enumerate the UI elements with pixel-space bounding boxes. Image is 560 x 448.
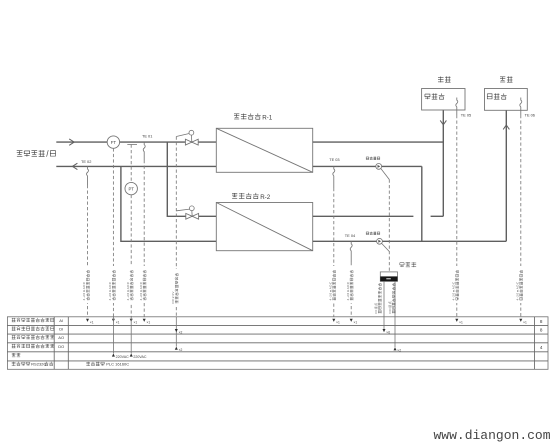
signal label valve <box>170 269 180 306</box>
wire: primary return pipe <box>56 165 216 167</box>
signal: TE02 dashed <box>87 185 89 317</box>
signal: FT dashed to table <box>112 148 114 316</box>
wire: collector downcomer <box>442 110 444 216</box>
signal: pumps dashed to distribution box <box>388 180 390 272</box>
svg-text:4-20mADC: 4-20mADC <box>451 281 455 301</box>
flow arrow up <box>503 125 509 129</box>
pressure tap <box>127 144 137 146</box>
valve line inside table <box>175 317 177 347</box>
svg-text:PLC 16160C: PLC 16160C <box>106 361 129 366</box>
svg-text:8: 8 <box>540 319 543 324</box>
signal: TE04 dashed <box>350 262 352 317</box>
svg-text:×2: ×2 <box>179 331 183 335</box>
row6 PLC suggestion <box>86 361 90 363</box>
collector 集水器 <box>422 89 465 111</box>
TE05 tap squiggle <box>456 98 458 116</box>
svg-text:TE 02: TE 02 <box>81 159 91 164</box>
svg-text:DO接点: DO接点 <box>387 301 392 314</box>
pump P2 <box>366 232 369 235</box>
label 热网供水/汽 <box>17 150 23 152</box>
svg-text:×2: ×2 <box>179 348 183 352</box>
svg-text:4-20mADC: 4-20mADC <box>139 281 143 301</box>
svg-text:DI接点: DI接点 <box>373 302 378 313</box>
svg-text:DI: DI <box>59 326 63 331</box>
label 供水 <box>500 76 505 78</box>
svg-text:FT: FT <box>111 140 117 145</box>
svg-text:×1: ×1 <box>147 320 151 324</box>
wire: return branch from R-2 <box>121 166 216 241</box>
I/O table frame <box>7 317 548 370</box>
svg-text:DC24V: DC24V <box>171 291 175 303</box>
signal: PT dashed to table <box>130 195 132 317</box>
flow arrow return <box>72 163 77 169</box>
signal label TE04 <box>344 266 354 303</box>
svg-text:4-20mADC: 4-20mADC <box>108 281 112 301</box>
signal: pump P1 diagonal <box>381 169 390 180</box>
svg-text:×1: ×1 <box>459 320 463 324</box>
signal label TE03 <box>327 266 337 303</box>
TE06 tap squiggle <box>520 98 522 116</box>
svg-text:×1: ×1 <box>354 320 358 324</box>
AI arrows row1 <box>86 319 89 322</box>
signal: TE05 dashed <box>456 115 458 317</box>
svg-text:TE 05: TE 05 <box>461 112 471 117</box>
svg-text:4: 4 <box>540 345 543 350</box>
heat exchanger R-1 <box>216 128 312 172</box>
label 热交换器R-2 <box>232 192 237 194</box>
control valve V2 <box>186 213 192 219</box>
signal label pump DO <box>392 283 395 313</box>
svg-text:220VAC: 220VAC <box>116 355 130 359</box>
wire: R-2 secondary outlet / bottom header <box>313 240 507 242</box>
pressure transmitter PT <box>125 182 137 194</box>
signal: pump P2 diagonal <box>382 243 390 251</box>
label 回水 <box>438 76 444 78</box>
signal: valve dashed to table <box>175 137 177 317</box>
label 热交换器R-1 <box>234 113 239 115</box>
signal: tap to PT <box>130 145 132 183</box>
power lines in table <box>112 317 114 354</box>
svg-text:PT: PT <box>128 187 134 192</box>
wire: R-1 secondary inlet <box>313 141 444 143</box>
signal: box DI line <box>383 281 385 330</box>
svg-text:4-20mADC: 4-20mADC <box>126 281 130 301</box>
row 建议接口RS232C信号 <box>12 361 16 363</box>
svg-text:×1: ×1 <box>523 320 527 324</box>
signal label PT <box>124 266 134 303</box>
signal: box DO line <box>394 281 396 347</box>
DO arrow valves <box>175 347 178 350</box>
svg-text:TE 06: TE 06 <box>525 112 535 117</box>
svg-text:×1: ×1 <box>90 320 94 324</box>
DO arrow box <box>394 347 397 350</box>
svg-text:AI: AI <box>59 318 63 323</box>
svg-text:RS232C: RS232C <box>31 361 46 366</box>
signal label TE02 <box>81 266 91 303</box>
wire: R-2 secondary inlet (with crossing gap) <box>313 215 414 217</box>
signal label FT <box>107 266 117 303</box>
DI arrow box <box>383 329 386 332</box>
svg-text:4-20mADC: 4-20mADC <box>82 281 86 301</box>
wire: R-1 outlet riser down <box>421 166 423 241</box>
heat exchanger R-2 <box>216 203 312 251</box>
distributor 分水器 <box>485 89 528 111</box>
signal: TE03 dashed <box>333 188 335 317</box>
signal: TE06 dashed <box>520 115 522 317</box>
table row labels <box>12 317 16 319</box>
svg-text:AO: AO <box>58 335 64 340</box>
wire: distributor riser <box>505 110 507 241</box>
signal label TE05 <box>450 266 460 303</box>
svg-text:×2: ×2 <box>397 349 401 353</box>
svg-text:TE 04: TE 04 <box>345 233 356 238</box>
svg-text:×1: ×1 <box>336 320 340 324</box>
svg-text:R-2: R-2 <box>260 194 271 201</box>
svg-text:×1: ×1 <box>134 320 138 324</box>
svg-text:4-20mADC: 4-20mADC <box>346 281 350 301</box>
svg-text:×6: ×6 <box>386 331 390 335</box>
svg-text:×1: ×1 <box>116 320 120 324</box>
svg-text:4-20mADC: 4-20mADC <box>328 281 332 301</box>
svg-text:8: 8 <box>540 328 543 333</box>
svg-text:4-20mADC: 4-20mADC <box>515 281 519 301</box>
wire: supply branch riser to R-2 <box>167 142 216 216</box>
wire: R-1 secondary outlet <box>313 165 422 167</box>
flow arrow supply <box>69 139 74 145</box>
signal label TE06 <box>514 266 524 303</box>
control valve V1 <box>185 139 191 145</box>
signal: TE01 dashed <box>143 160 145 317</box>
svg-text:TE 01: TE 01 <box>142 133 152 138</box>
svg-text:www.diangon.com: www.diangon.com <box>434 428 551 443</box>
svg-text:R-1: R-1 <box>262 114 273 121</box>
flow arrow down <box>440 120 446 124</box>
flow transmitter FT <box>107 136 119 148</box>
signal label pump DI <box>378 283 381 313</box>
row 电源 <box>12 352 16 354</box>
signal label TE01 <box>137 266 147 303</box>
svg-text:TE 03: TE 03 <box>329 157 339 162</box>
svg-text:220VAC: 220VAC <box>133 355 147 359</box>
distribution box 配电箱 <box>400 263 404 265</box>
wire: primary supply pipe <box>56 141 216 143</box>
pump P1 <box>366 157 369 160</box>
svg-text:DO: DO <box>58 344 64 349</box>
DI arrow valves <box>175 329 178 332</box>
